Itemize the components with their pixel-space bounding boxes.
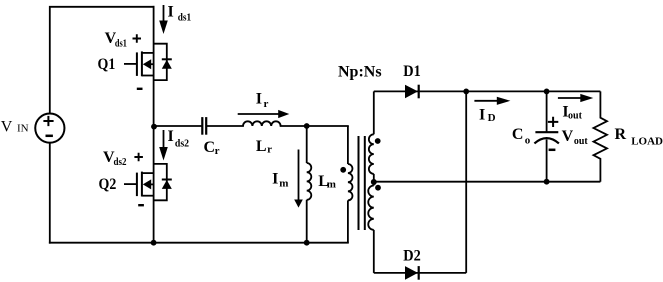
transformer T1 primary winding [348, 126, 353, 243]
svg-text:R: R [615, 126, 627, 143]
svg-text:r: r [215, 145, 220, 157]
svg-text:m: m [327, 178, 336, 190]
svg-text:Q1: Q1 [98, 56, 116, 73]
current arrow Ids1 [159, 5, 168, 34]
wire D2 row [374, 272, 466, 274]
label Vds2 plus sign [134, 153, 143, 162]
transformer T1 secondary top winding [369, 91, 374, 182]
diode D2 [405, 266, 419, 280]
label RLOAD [615, 126, 663, 147]
transistor Q1 [124, 44, 172, 80]
node center tap junction [371, 179, 377, 185]
label Cr [204, 139, 220, 157]
wire half-bridge vertical (Q1 drain to Q2 source) [153, 7, 155, 243]
label Vout [562, 128, 588, 147]
current arrow Ir [238, 110, 290, 118]
svg-text:I: I [479, 106, 485, 123]
voltage source VIN [35, 114, 64, 143]
inductor Lm [307, 126, 312, 243]
label Vds1 minus sign [137, 88, 143, 90]
capacitor Co [534, 91, 559, 181]
capacitor Cr [202, 117, 206, 135]
svg-text:C: C [204, 139, 216, 156]
svg-text:LOAD: LOAD [631, 135, 663, 147]
wire Cr to Lr [207, 125, 243, 127]
current arrow Im [294, 150, 303, 208]
inductor Lr [243, 121, 281, 126]
svg-text:Q2: Q2 [99, 176, 117, 193]
label Iout [562, 103, 582, 121]
svg-text:D: D [488, 112, 496, 124]
svg-text:I: I [256, 91, 262, 108]
label Vout minus sign [549, 149, 556, 152]
svg-text:out: out [574, 135, 588, 147]
label Ids2 [168, 128, 190, 150]
current arrow Ids2 [159, 130, 168, 161]
label Vds2 minus sign [138, 204, 144, 206]
node secondary bottom polarity dot [375, 185, 381, 191]
svg-text:C: C [512, 126, 524, 143]
svg-text:D1: D1 [403, 63, 421, 80]
label Im [272, 171, 288, 190]
node Lm top junction [304, 123, 310, 129]
node half-bridge midpoint junction [151, 124, 157, 130]
transformer T1 secondary bottom winding [368, 182, 374, 273]
current arrow Iout [558, 94, 593, 102]
node secondary top polarity dot [375, 138, 381, 144]
svg-text:r: r [267, 143, 272, 155]
svg-text:V: V [562, 128, 574, 145]
svg-text:L: L [256, 138, 267, 155]
wire D2 cathode to output vertical [465, 91, 467, 273]
wire bottom rail [50, 242, 348, 244]
node Co top junction [544, 89, 550, 95]
wire output positive top rail [374, 90, 601, 92]
label ID [479, 106, 496, 124]
node Q2 source to bottom rail junction [151, 240, 157, 246]
svg-text:ds2: ds2 [175, 138, 190, 150]
label Ir [256, 91, 269, 110]
wire left rail lower segment [49, 143, 51, 243]
svg-text:I: I [272, 171, 278, 188]
svg-text:D2: D2 [403, 248, 421, 265]
svg-text:IN: IN [17, 123, 29, 135]
svg-text:r: r [264, 98, 269, 110]
current arrow ID [474, 97, 510, 105]
node Lm bottom junction [304, 240, 310, 246]
label Lr [256, 138, 272, 156]
label VIN [1, 119, 29, 136]
label Ids1 [168, 4, 192, 24]
svg-text:I: I [168, 4, 174, 21]
label Co [512, 126, 531, 147]
svg-text:o: o [525, 134, 531, 146]
svg-text:V: V [1, 119, 13, 136]
svg-text:m: m [279, 178, 288, 190]
wire center tap return rail [374, 181, 601, 183]
svg-text:out: out [568, 110, 582, 122]
wire mid node to Cr [154, 125, 202, 127]
svg-text:ds1: ds1 [178, 11, 191, 23]
svg-text:ds2: ds2 [114, 156, 127, 168]
transistor Q2 [124, 164, 172, 200]
label Vout plus sign [548, 117, 558, 127]
node Co bottom junction [544, 179, 550, 185]
svg-text:I: I [168, 128, 174, 145]
node D1 cathode junction [463, 89, 469, 95]
svg-text:Np:Ns: Np:Ns [338, 64, 382, 81]
label Vds2 [103, 149, 127, 168]
wire Lr to transformer primary [281, 125, 348, 127]
resistor RLOAD [594, 91, 608, 181]
node primary polarity dot [340, 167, 346, 173]
diode D1 [405, 85, 419, 99]
label Vds1 plus sign [133, 34, 142, 43]
svg-text:ds1: ds1 [115, 37, 127, 49]
label Lm [318, 173, 336, 190]
transformer T1 core [359, 136, 365, 230]
label Vds1 [105, 30, 127, 49]
wire top rail with left rail upper segment [50, 7, 154, 114]
